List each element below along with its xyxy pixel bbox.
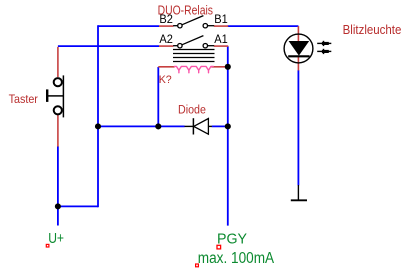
- svg-text:Blitzleuchte: Blitzleuchte: [343, 22, 402, 37]
- svg-text:Diode: Diode: [178, 103, 206, 117]
- svg-text:B1: B1: [214, 12, 228, 26]
- svg-text:B2: B2: [159, 12, 173, 26]
- svg-text:max. 100mA: max. 100mA: [198, 250, 275, 267]
- svg-text:PGY: PGY: [217, 230, 247, 247]
- svg-text:A2: A2: [159, 32, 173, 46]
- svg-text:Taster: Taster: [9, 92, 38, 106]
- svg-text:U+: U+: [48, 231, 64, 247]
- svg-text:A1: A1: [214, 32, 228, 46]
- svg-text:K?: K?: [159, 74, 172, 86]
